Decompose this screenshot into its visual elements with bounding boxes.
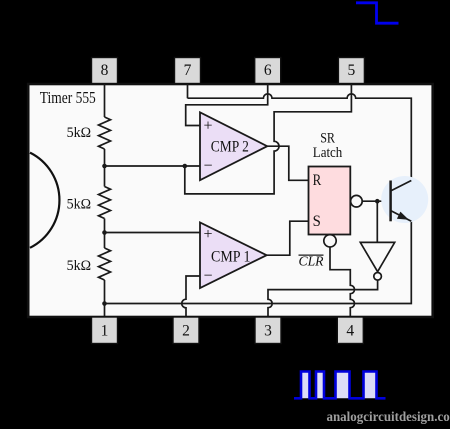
wire: inverter output to pin3 (pin3 drop hops over ground rail) xyxy=(268,280,378,317)
svg-text:7: 7 xyxy=(184,62,192,79)
svg-text:Latch: Latch xyxy=(313,145,343,161)
wire: R2 to node B xyxy=(104,219,106,233)
svg-text:3: 3 xyxy=(264,323,272,340)
transistor Q1 (discharge, NPN) xyxy=(389,181,392,222)
svg-text:−: − xyxy=(203,268,212,285)
node: control voltage joins CMP2 - line xyxy=(183,164,188,169)
emitter arrow xyxy=(397,212,409,220)
wire: pin8 Vcc lead to resistor chain xyxy=(104,83,106,117)
pin 1 (ground) xyxy=(92,317,118,344)
wire: CMP1 output to S input of latch xyxy=(267,221,309,255)
pin 5 (control) xyxy=(338,58,364,84)
wire: pin5 control voltage to divider node (hops over CMP2 output) xyxy=(185,83,352,194)
svg-text:6: 6 xyxy=(264,62,272,79)
node B (1/3 Vcc divider junction) xyxy=(102,230,107,235)
wire: ground rail to transistor emitter xyxy=(105,221,412,303)
svg-text:R: R xyxy=(313,172,322,189)
wire: R1 to node A xyxy=(104,149,106,166)
IC notch (left edge semicircle) xyxy=(30,153,59,248)
output pulse waveform (bottom) xyxy=(294,372,386,399)
wire: node A to CMP2 - input xyxy=(105,165,201,167)
svg-text:5kΩ: 5kΩ xyxy=(67,196,92,212)
svg-text:Timer 555: Timer 555 xyxy=(40,88,96,107)
Qbar output bubble of latch xyxy=(351,195,363,207)
pin 3 (output) xyxy=(255,317,281,344)
svg-text:1: 1 xyxy=(101,323,109,340)
wire: CLR bubble to pin4 reset (hops over output line and ground rail) xyxy=(330,247,355,317)
svg-text:analogcircuitdesign.com: analogcircuitdesign.com xyxy=(327,409,450,424)
wire: Qbar bubble to transistor base xyxy=(362,200,390,202)
pin 2 (trigger) xyxy=(173,317,199,344)
svg-text:−: − xyxy=(203,158,212,175)
wire: pin2 trigger to CMP1 - input (hops over ground rail) xyxy=(182,276,200,317)
resistor R1 5k xyxy=(99,117,111,149)
svg-text:4: 4 xyxy=(346,323,354,340)
wire: node A to R2 xyxy=(104,166,106,187)
svg-text:5kΩ: 5kΩ xyxy=(67,125,92,141)
collector of Q1 xyxy=(391,181,412,192)
svg-text:+: + xyxy=(203,226,212,243)
inverter output bubble xyxy=(374,273,382,281)
node GND (pin1 junction) xyxy=(102,301,107,306)
svg-text:+: + xyxy=(203,117,212,134)
svg-text:S: S xyxy=(313,213,321,230)
wire: node B to R3 xyxy=(104,233,106,249)
wire: pin7 discharge line to collector (hops over pin6 and pin5 drops) xyxy=(188,83,412,181)
transistor Q1 highlight circle xyxy=(381,176,428,223)
pin 4 (reset) xyxy=(337,317,363,344)
pin 8 (Vcc) xyxy=(92,58,118,84)
svg-text:5: 5 xyxy=(348,62,356,79)
wire: CMP2 output to R input of latch xyxy=(267,146,309,180)
wire: ground node to pin1 xyxy=(104,304,106,318)
pin 7 (discharge) xyxy=(175,58,201,84)
trigger step waveform (top right) xyxy=(356,3,399,23)
CLR input bubble of latch xyxy=(324,235,336,247)
wire: pin6 threshold to CMP2 + input xyxy=(186,83,268,126)
node: base junction xyxy=(375,199,380,204)
resistor R3 5k xyxy=(99,248,111,280)
node A (2/3 Vcc divider junction) xyxy=(102,164,107,169)
pin 6 (threshold) xyxy=(255,58,281,84)
svg-text:CMP 2: CMP 2 xyxy=(211,139,249,156)
svg-text:5kΩ: 5kΩ xyxy=(67,258,92,274)
svg-text:CMP 1: CMP 1 xyxy=(211,248,251,265)
IC body (555 package outline) xyxy=(28,84,433,317)
svg-text:2: 2 xyxy=(182,323,190,340)
emitter of Q1 xyxy=(391,211,412,222)
op-amp CMP2 (threshold comparator) xyxy=(200,112,267,180)
inverter U2 (output buffer) xyxy=(360,242,394,271)
op-amp CMP1 (trigger comparator) xyxy=(200,222,267,288)
wire: R3 to ground node xyxy=(104,280,106,304)
wire: node B to CMP1 + input xyxy=(105,232,201,234)
resistor R2 5k xyxy=(99,187,111,219)
svg-text:8: 8 xyxy=(101,62,109,79)
wire: base node to inverter input xyxy=(376,201,378,242)
SR latch U1 xyxy=(309,167,351,235)
